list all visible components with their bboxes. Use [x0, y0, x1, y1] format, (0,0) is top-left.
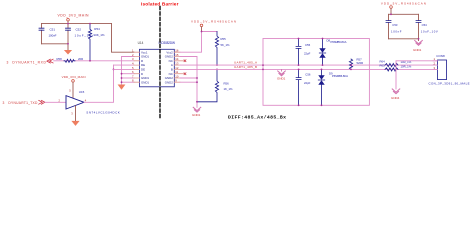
svg-text:20R: 20R: [78, 57, 83, 61]
junction dot: [121, 81, 123, 83]
resistor R64: [385, 64, 398, 67]
svg-text:CON8: CON8: [436, 54, 445, 58]
capacitor C52: [67, 24, 69, 44]
NC x marks: [184, 60, 186, 75]
junction dot: [390, 13, 392, 15]
wire pin6 D to gnd bus: [122, 73, 135, 75]
capacitor C56: [296, 69, 301, 105]
junction dot: [350, 69, 352, 71]
junction dot: [67, 43, 69, 45]
tvs diode D9: [318, 69, 324, 105]
svg-text:C54: C54: [422, 23, 428, 27]
chip pin names right: [165, 50, 173, 84]
junction dot: [262, 69, 264, 71]
ground arrow 3V3 bank: [64, 50, 72, 55]
svg-text:U15: U15: [79, 90, 85, 94]
junction dot: [216, 69, 218, 71]
junction dot: [113, 69, 115, 71]
svg-text:GND2: GND2: [165, 80, 173, 84]
svg-text:5K_1%: 5K_1%: [221, 43, 231, 47]
svg-text:R55: R55: [221, 37, 227, 41]
svg-text:3: 3: [7, 60, 9, 64]
wire connector pin1 gnd: [396, 61, 438, 89]
wire 5V rail right: [389, 13, 419, 15]
svg-text:DIFF:485_Ax/485_Bx: DIFF:485_Ax/485_Bx: [228, 115, 286, 121]
capacitor C54: [418, 14, 420, 39]
svg-text:R54: R54: [94, 27, 100, 31]
svg-text:22pF: 22pF: [304, 51, 311, 55]
ground arrow GND2 bus: [193, 107, 201, 112]
chip pin numbers right: [175, 49, 179, 83]
ground arrow 5V caps: [415, 41, 423, 46]
svg-text:3: 3: [3, 101, 5, 105]
wire pin8 GND1: [122, 81, 135, 83]
svg-text:1K_1%: 1K_1%: [224, 87, 234, 91]
wire A: [180, 64, 438, 66]
svg-text:VDD_5V_RS485&CAN: VDD_5V_RS485&CAN: [381, 1, 426, 5]
capacitor C51: [41, 24, 43, 44]
junction dot: [298, 64, 300, 66]
junction dot: [196, 81, 198, 83]
svg-text:VDD_3V3_MAIN: VDD_3V3_MAIN: [62, 75, 86, 79]
junction dot: [321, 69, 323, 71]
svg-text:VDD_3V3_MAIN: VDD_3V3_MAIN: [58, 13, 90, 17]
junction dots on 3V3 rail: [67, 23, 69, 25]
svg-text:GND1: GND1: [141, 80, 149, 84]
svg-text:520R: 520R: [357, 61, 364, 65]
svg-text:R56: R56: [224, 81, 230, 85]
junction dot: [298, 38, 300, 40]
chip pin stubs left: [134, 52, 140, 82]
power symbol buffer VCC: [72, 80, 75, 83]
svg-text:R58: R58: [57, 57, 63, 61]
chip pin names left: [141, 50, 149, 84]
wire pin7 GND1: [122, 77, 135, 79]
wire B: [180, 68, 438, 70]
isolation barrier dashed line: [159, 7, 161, 120]
resistor R58: [64, 59, 75, 62]
svg-text:UART1_485_A: UART1_485_A: [234, 61, 257, 65]
ic U14 ISO3082DW: [138, 41, 175, 87]
svg-text:GND1: GND1: [413, 48, 422, 52]
svg-text:U14: U14: [138, 41, 144, 45]
wire VDD riser to pin1: [112, 24, 135, 53]
wire pin5 DE: [114, 68, 135, 70]
svg-text:10uF_10V: 10uF_10V: [421, 30, 438, 34]
junction dot: [350, 64, 352, 66]
ground arrow chip left: [118, 85, 126, 90]
wire 3V3 rail: [42, 23, 112, 25]
svg-text:100nF: 100nF: [49, 33, 57, 37]
svg-text:C51: C51: [50, 27, 56, 31]
capacitor C53: [388, 14, 390, 39]
junction dot: [196, 101, 198, 103]
svg-text:10K_1%: 10K_1%: [94, 33, 105, 37]
svg-text:DYNUART1_TXD: DYNUART1_TXD: [8, 101, 38, 105]
wire Vcc2 riser: [180, 32, 217, 53]
resistor R65: [385, 68, 398, 71]
protection box: [263, 39, 369, 106]
wire buffer gnd stem: [75, 106, 77, 121]
resistor R56: [197, 69, 219, 101]
resistor R54: [88, 24, 91, 61]
ground arrow in box: [281, 69, 283, 71]
svg-text:P6SMB6.8CA: P6SMB6.8CA: [331, 40, 347, 44]
resistor R57: [349, 59, 352, 69]
resistor R55: [215, 32, 218, 66]
junction dot: [121, 73, 123, 75]
svg-text:C53: C53: [392, 23, 398, 27]
ground arrow buffer: [71, 121, 79, 126]
svg-text:100nF: 100nF: [391, 30, 402, 34]
svg-text:SN74LVC1G04DCK: SN74LVC1G04DCK: [86, 110, 120, 114]
junction dot: [196, 77, 198, 79]
svg-text:10R_1%: 10R_1%: [401, 65, 412, 69]
svg-text:CON_3P_3D91_90_MALE: CON_3P_3D91_90_MALE: [429, 82, 470, 86]
power symbol 5V chip: [200, 24, 203, 27]
power symbol 5V right: [390, 6, 393, 9]
wire caps bottom rail: [42, 44, 69, 50]
junction dot: [216, 64, 218, 66]
svg-text:C52: C52: [76, 27, 82, 31]
tvs diode D8: [319, 39, 325, 66]
wire pin4 RE: [114, 64, 135, 66]
svg-text:GND4: GND4: [391, 96, 400, 100]
inverter U15: [66, 96, 84, 109]
junction dot: [322, 64, 324, 66]
wire buffer output / DIR riser: [84, 65, 114, 102]
junction dot: [89, 23, 91, 25]
svg-text:R65: R65: [380, 64, 386, 68]
ground arrow GND4: [392, 89, 400, 94]
junction dot: [262, 64, 264, 66]
svg-text:UART1_485_B: UART1_485_B: [234, 65, 257, 69]
wire caps bottom rail right: [389, 39, 419, 41]
svg-text:C55: C55: [305, 43, 311, 47]
junction R54/RXD: [89, 60, 91, 62]
svg-text:22pF: 22pF: [304, 81, 311, 85]
junction dot: [418, 38, 420, 40]
svg-text:DYNUART1_RXD: DYNUART1_RXD: [12, 60, 46, 64]
wire RXD: [54, 60, 134, 62]
wire pin2 GND1 bus: [122, 57, 135, 85]
svg-text:VDD_5V_RS485&CAN: VDD_5V_RS485&CAN: [191, 20, 236, 24]
svg-text:GND1: GND1: [192, 113, 201, 117]
svg-text:ISO3082DW: ISO3082DW: [159, 41, 176, 45]
wire GND2 bus right: [180, 57, 197, 108]
junction dot: [121, 77, 123, 79]
junction dot: [322, 38, 324, 40]
junction dot: [298, 69, 300, 71]
power symbol VDD_3V3_MAIN: [67, 19, 70, 22]
svg-text:C56: C56: [305, 73, 311, 77]
wire TXD to buffer: [45, 101, 66, 103]
svg-text:GND1: GND1: [277, 76, 286, 80]
junction dot: [321, 104, 323, 106]
junction dot: [201, 31, 203, 33]
svg-text:P6SMB6.8CA: P6SMB6.8CA: [332, 74, 348, 78]
capacitor C55: [296, 39, 301, 66]
chip pin stubs right: [174, 52, 185, 82]
junction dot: [298, 104, 300, 106]
chip pin numbers left: [132, 49, 134, 83]
